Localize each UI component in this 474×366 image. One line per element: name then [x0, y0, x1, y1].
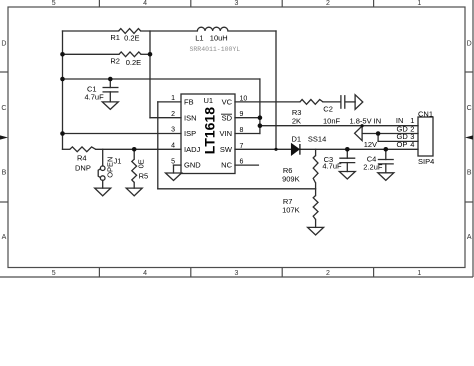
svg-text:1: 1 [417, 0, 421, 7]
svg-text:FB: FB [184, 98, 194, 107]
svg-text:R2: R2 [110, 56, 120, 65]
svg-text:2: 2 [171, 111, 175, 118]
svg-text:OP: OP [397, 140, 408, 149]
svg-text:R1: R1 [110, 33, 120, 42]
svg-text:NC: NC [221, 161, 232, 170]
svg-text:3: 3 [235, 270, 239, 277]
svg-text:4: 4 [143, 0, 147, 7]
svg-text:2K: 2K [292, 117, 301, 126]
svg-text:2: 2 [326, 0, 330, 7]
svg-text:D1: D1 [292, 135, 302, 144]
svg-text:9: 9 [240, 111, 244, 118]
svg-text:SRR4011-100YL: SRR4011-100YL [190, 46, 241, 53]
svg-text:7: 7 [240, 143, 244, 150]
svg-text:SD: SD [222, 113, 233, 122]
svg-text:C: C [1, 105, 6, 112]
svg-text:U1: U1 [204, 96, 214, 105]
svg-text:ISN: ISN [184, 113, 197, 122]
svg-text:A: A [467, 234, 472, 241]
svg-text:12V: 12V [364, 140, 377, 149]
svg-text:4: 4 [410, 140, 414, 149]
svg-text:4: 4 [171, 143, 175, 150]
svg-text:SW: SW [220, 145, 233, 154]
svg-text:IADJ: IADJ [184, 145, 201, 154]
svg-text:4: 4 [143, 270, 147, 277]
svg-text:0E: 0E [137, 159, 146, 168]
svg-text:1: 1 [171, 95, 175, 102]
svg-text:2: 2 [326, 270, 330, 277]
svg-text:10uH: 10uH [210, 34, 228, 43]
svg-text:909K: 909K [282, 175, 300, 184]
svg-text:5: 5 [171, 158, 175, 165]
svg-text:B: B [467, 170, 472, 177]
svg-text:OPEN: OPEN [106, 157, 115, 178]
svg-text:10: 10 [240, 95, 248, 102]
svg-text:2.2uF: 2.2uF [363, 163, 383, 172]
svg-text:ISP: ISP [184, 129, 196, 138]
svg-text:3: 3 [235, 0, 239, 7]
svg-text:4.7uF: 4.7uF [85, 92, 105, 101]
svg-text:SS14: SS14 [308, 135, 326, 144]
svg-text:C2: C2 [323, 104, 333, 113]
svg-text:VIN: VIN [219, 129, 232, 138]
svg-text:D: D [1, 41, 6, 48]
svg-text:R5: R5 [139, 172, 149, 181]
svg-text:L1: L1 [195, 34, 203, 43]
svg-text:A: A [2, 234, 7, 241]
svg-text:6: 6 [240, 159, 244, 166]
svg-text:8: 8 [240, 127, 244, 134]
svg-text:1.8-5V IN: 1.8-5V IN [350, 116, 382, 125]
svg-text:R4: R4 [77, 153, 87, 162]
svg-text:5: 5 [52, 0, 56, 7]
svg-text:5: 5 [52, 270, 56, 277]
svg-text:GND: GND [184, 161, 201, 170]
svg-text:DNP: DNP [75, 164, 91, 173]
svg-text:10nF: 10nF [323, 117, 341, 126]
svg-text:CN1: CN1 [418, 110, 433, 119]
svg-text:C: C [467, 105, 472, 112]
svg-text:107K: 107K [282, 206, 300, 215]
svg-text:SIP4: SIP4 [418, 157, 434, 166]
svg-text:VC: VC [222, 98, 233, 107]
svg-text:4.7uF: 4.7uF [322, 162, 342, 171]
svg-text:3: 3 [171, 127, 175, 134]
svg-text:0.2E: 0.2E [124, 33, 139, 42]
svg-text:1: 1 [417, 270, 421, 277]
svg-text:0.2E: 0.2E [126, 58, 141, 67]
svg-text:B: B [2, 170, 7, 177]
svg-text:D: D [467, 41, 472, 48]
svg-text:LT1618: LT1618 [201, 107, 217, 154]
